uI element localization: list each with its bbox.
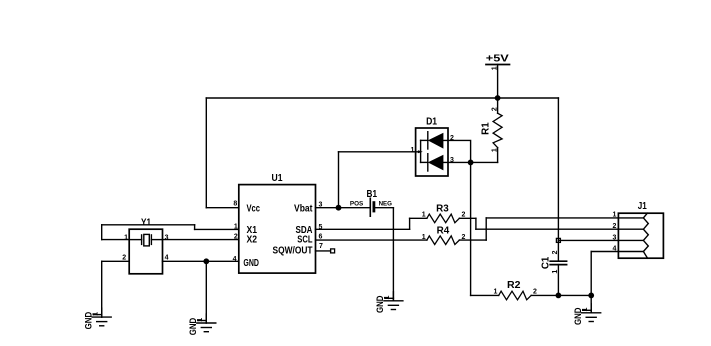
wire J1 pin4 riser — [590, 252, 592, 296]
svg-text:R2: R2 — [507, 280, 521, 291]
wire to J1 pin 1 — [486, 217, 618, 219]
svg-text:2: 2 — [122, 255, 126, 262]
svg-text:2: 2 — [450, 135, 454, 142]
resistor R2 — [493, 280, 537, 300]
svg-text:Vcc: Vcc — [247, 203, 261, 214]
wire X1 top run — [102, 224, 195, 226]
wire Vcc stub to U1 pin 8 — [206, 207, 239, 209]
wire R2 right lead — [531, 294, 591, 296]
+5V power symbol — [486, 54, 510, 98]
node D1 pin1 arrow junction — [418, 150, 423, 153]
svg-text:1: 1 — [422, 212, 426, 219]
wire C1 bottom lead — [557, 265, 559, 296]
resistor R4 — [422, 225, 466, 244]
svg-text:GND: GND — [243, 258, 259, 269]
svg-text:SCL: SCL — [297, 235, 312, 246]
svg-text:X2: X2 — [247, 235, 258, 246]
battery B1 — [350, 189, 392, 216]
svg-text:4: 4 — [165, 255, 169, 262]
svg-text:POS: POS — [350, 200, 363, 207]
svg-text:7: 7 — [319, 243, 323, 250]
wire Y1 pin2 drop to ground — [101, 261, 103, 317]
wire R3 right lead — [459, 217, 476, 219]
diode D1 (dual diode) — [410, 116, 454, 176]
ground J1 — [573, 304, 601, 325]
node J1 pin3 tee square — [556, 238, 560, 242]
connector J1 — [612, 201, 663, 258]
wire B1 NEG drop to ground — [392, 208, 394, 301]
svg-text:8: 8 — [233, 200, 237, 207]
ground U1 — [188, 314, 216, 335]
node J1 pin4 junction dot — [588, 293, 594, 299]
wire R4 right lead — [459, 239, 486, 241]
wire D1 pin1 to Vbat riser — [339, 151, 421, 153]
wire SDA from U1 pin5 — [316, 228, 410, 230]
node SQW/OUT open end square — [331, 249, 335, 253]
wire B1 NEG out — [374, 207, 394, 209]
ground B1 — [375, 292, 403, 313]
wire J1 pin3 from +5V rail — [558, 239, 618, 241]
crystal Y1 — [122, 218, 168, 274]
capacitor C1 — [540, 250, 566, 273]
IC U1 — [233, 173, 323, 273]
wire R3 left lead — [410, 217, 427, 219]
svg-text:1: 1 — [410, 147, 414, 154]
wire SCL from U1 pin6 — [316, 239, 427, 241]
wire Y1 pin1 lead — [102, 239, 130, 241]
svg-text:1: 1 — [612, 212, 616, 219]
svg-text:C1: C1 — [540, 256, 551, 269]
svg-text:Y1: Y1 — [141, 218, 151, 229]
node +5V junction dot — [495, 95, 501, 101]
wire to J1 pin 2 — [476, 228, 619, 230]
svg-text:R4: R4 — [437, 225, 450, 236]
svg-text:J1: J1 — [638, 201, 647, 212]
wire R2 left lead from main drop — [471, 294, 499, 296]
node Vbat junction dot — [336, 205, 342, 211]
wire R1 bottom elbow to D1 node — [471, 161, 498, 163]
svg-text:2: 2 — [552, 250, 559, 254]
wire SQW/OUT stub — [316, 250, 331, 252]
svg-text:1: 1 — [124, 234, 128, 241]
wire Y1 pin2 lead — [102, 260, 130, 262]
wire R3 out jog down — [475, 218, 477, 229]
svg-text:2: 2 — [533, 288, 537, 295]
svg-text:3: 3 — [612, 234, 616, 241]
svg-text:R1: R1 — [480, 122, 491, 135]
node R2/C1 junction dot — [556, 293, 562, 299]
wire +5V rail right drop to C1 — [557, 98, 559, 261]
ground Y1 — [83, 308, 111, 329]
svg-text:R3: R3 — [436, 204, 449, 215]
resistor R1 — [480, 98, 502, 162]
wire X1 left riser — [101, 225, 103, 240]
svg-text:D1: D1 — [426, 116, 437, 127]
svg-text:1: 1 — [422, 234, 426, 241]
svg-text:U1: U1 — [272, 173, 283, 184]
wire +5V rail horizontal — [206, 97, 558, 99]
wire Y1 pin4 to U1 GND — [163, 260, 239, 262]
svg-text:3: 3 — [165, 235, 169, 242]
svg-text:Vbat: Vbat — [294, 204, 313, 215]
wire Vbat riser to D1 pin1 — [338, 152, 340, 208]
node GND junction dot — [203, 258, 209, 264]
wire D1 pin2 out — [443, 140, 470, 162]
wire D1 pin3 out — [443, 161, 470, 163]
wire SDA jog up to R3 — [409, 218, 411, 229]
wire to J1 pin4 — [591, 251, 618, 253]
svg-text:4: 4 — [612, 246, 616, 253]
wire Y1 pin3 to U1 X2 — [163, 239, 239, 241]
svg-text:2: 2 — [612, 223, 616, 230]
svg-text:B1: B1 — [367, 189, 378, 200]
wire main vertical drop to R2 — [470, 162, 472, 295]
svg-text:1: 1 — [492, 148, 499, 152]
wire ground drop right — [590, 295, 592, 312]
wire Vbat to B1 POS — [316, 207, 371, 209]
wire Vcc riser left — [205, 98, 207, 208]
wire GND drop — [205, 261, 207, 323]
wire X1 jog — [194, 225, 196, 230]
wire R4 out jog up — [485, 218, 487, 240]
resistor R3 — [422, 204, 466, 223]
svg-text:1: 1 — [493, 288, 497, 295]
svg-text:+5V: +5V — [486, 54, 509, 65]
wire X1 stub to U1 — [195, 228, 239, 230]
svg-text:2: 2 — [492, 107, 499, 111]
svg-text:SQW/OUT: SQW/OUT — [273, 246, 313, 257]
svg-text:NEG: NEG — [379, 200, 392, 207]
svg-text:6: 6 — [319, 233, 323, 240]
node D1/R1/R2 junction dot — [468, 160, 474, 166]
